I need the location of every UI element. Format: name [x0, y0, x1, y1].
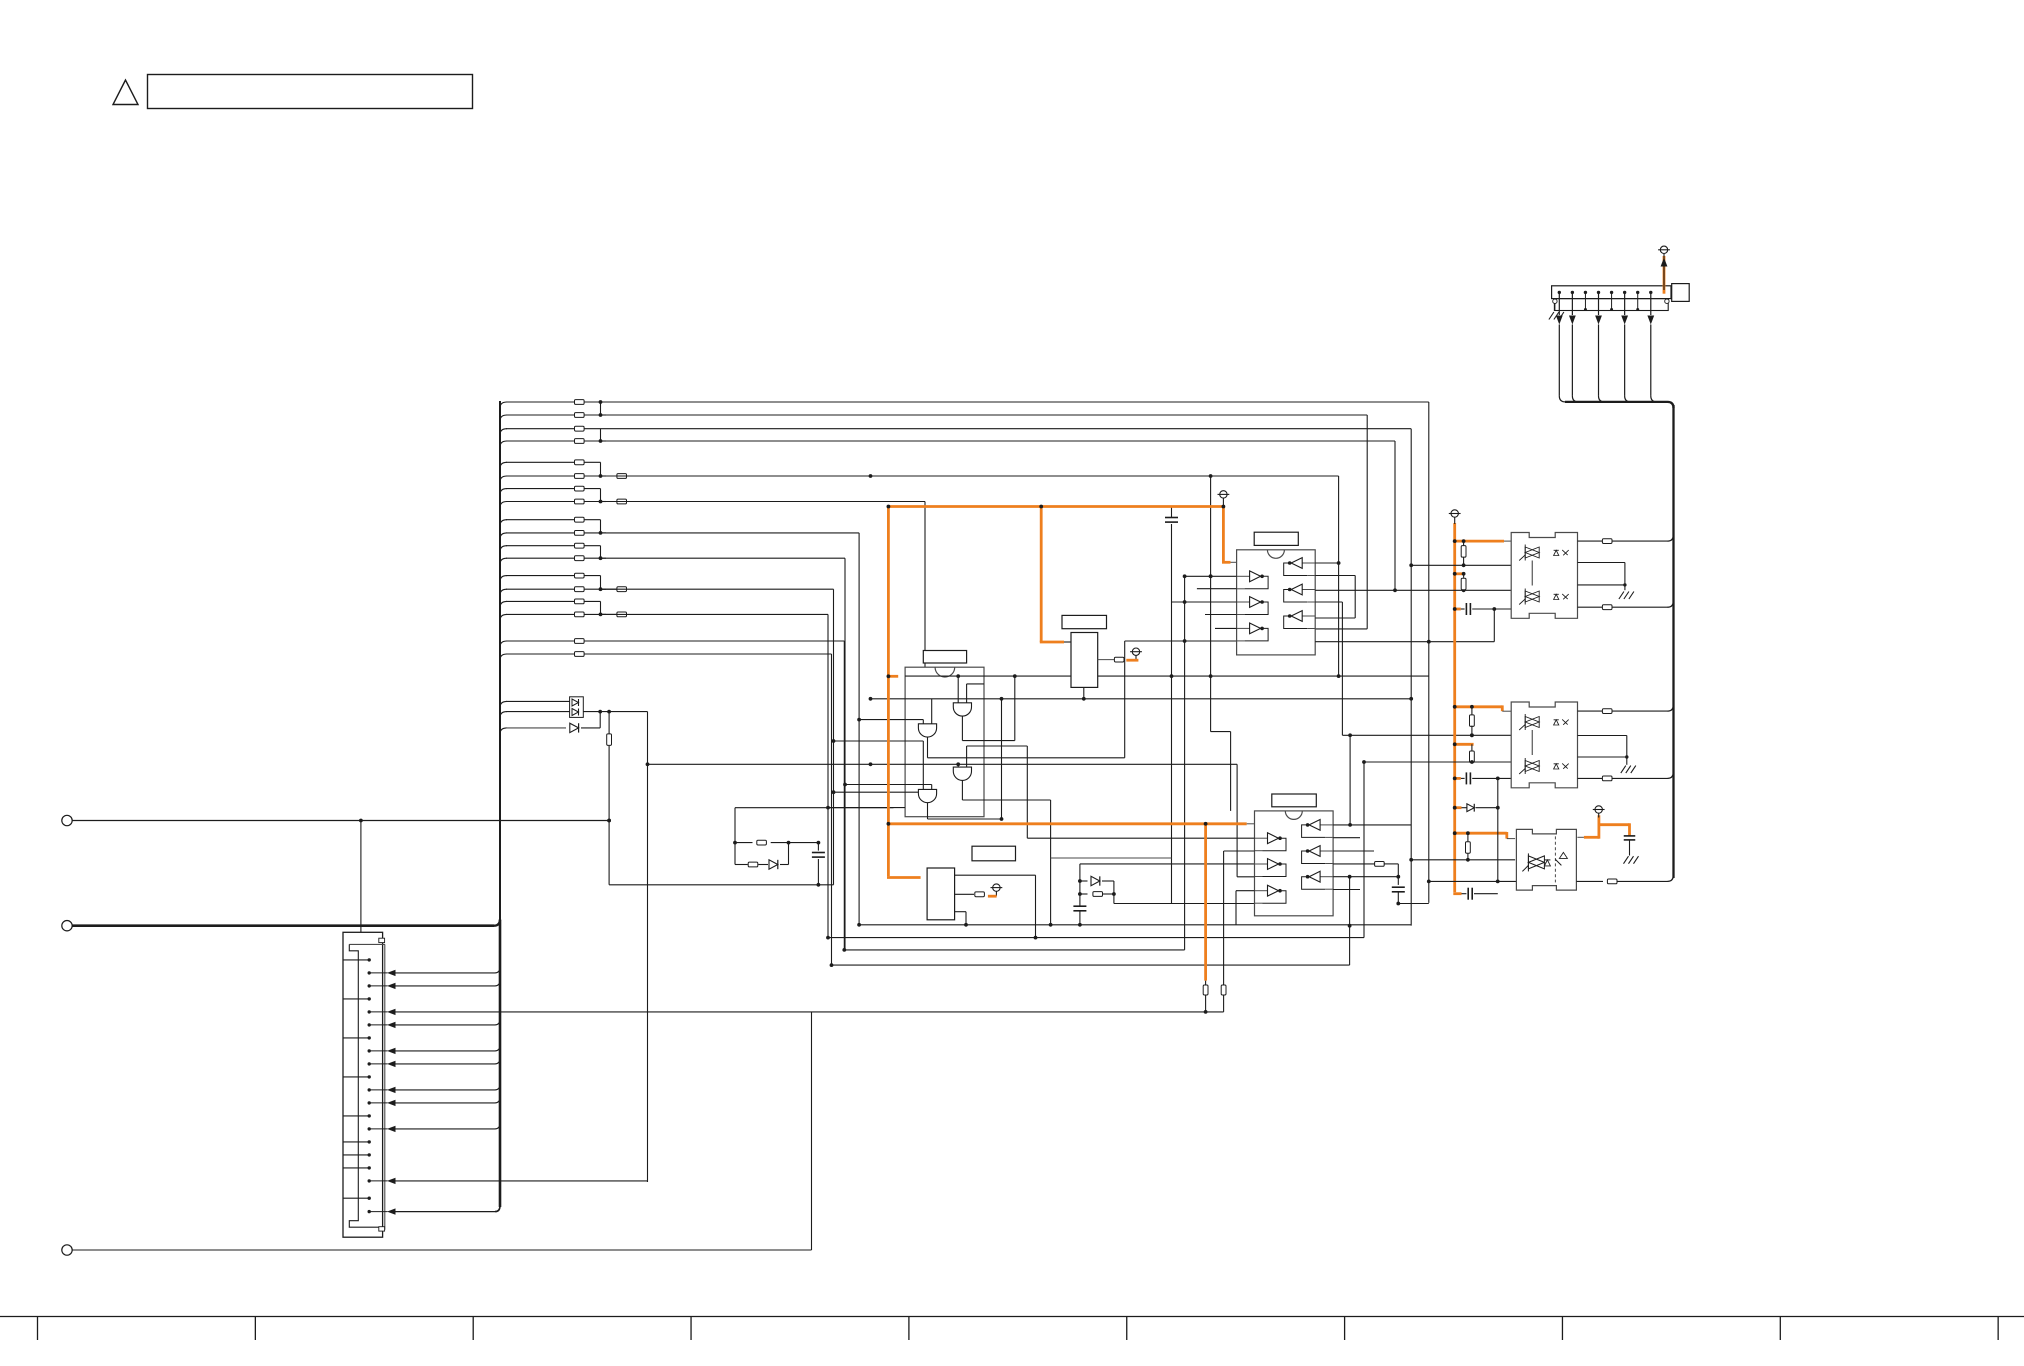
optocoupler PC1	[1511, 533, 1577, 619]
wire opto2 out A	[1578, 704, 1674, 713]
wire U2 pin top orange-fed	[905, 674, 1429, 678]
gate G2	[918, 724, 936, 737]
resistor R3 opto2	[1470, 707, 1475, 737]
wire U6 out876	[1237, 876, 1254, 878]
connector CN-top gnd hook	[1549, 299, 1564, 320]
wire H924 lower	[857, 923, 1411, 927]
wire opto2 pin link A	[1502, 710, 1511, 712]
wire V1494 up	[1493, 609, 1495, 642]
wire bus tap to D1 b	[500, 712, 570, 718]
wire V1124 up	[1124, 641, 1126, 758]
wire U4 top right	[955, 875, 1036, 937]
resistor R-609	[607, 712, 612, 885]
wire CN-top arrow up	[1661, 254, 1668, 290]
wire opto1 gnd	[1578, 563, 1627, 591]
wire row654 to V831	[584, 654, 833, 967]
wire row402 long	[601, 402, 1429, 903]
wire U5 r628	[1315, 628, 1367, 630]
wire G4 in b	[832, 790, 919, 794]
IC U2 outline	[905, 667, 984, 817]
wire V1350	[1349, 735, 1351, 825]
ground hatch opto2	[1621, 766, 1636, 774]
resistor R2 opto1	[1461, 572, 1466, 590]
capacitor C-1629	[1624, 836, 1636, 856]
diode D-1097	[1080, 876, 1114, 885]
warning note box	[148, 75, 473, 109]
wire U5 r641	[1315, 640, 1494, 644]
wire V361 to connector	[359, 821, 363, 938]
diode D-774	[769, 843, 789, 870]
wire row428 to V1411	[601, 429, 1412, 926]
orange junction dots	[887, 505, 1226, 826]
wire G2G4 mid	[832, 739, 924, 789]
wire row641 to V844	[584, 641, 846, 952]
wire row589 to V833	[601, 589, 834, 885]
orange right supply bus	[1453, 523, 1507, 894]
warning triangle	[113, 80, 138, 105]
orange CN-top stub	[1663, 256, 1666, 294]
wire opto1 out A	[1578, 534, 1674, 543]
connector CN-top hook right	[1665, 299, 1669, 303]
orange opto3 out net	[1577, 815, 1629, 838]
IC U6 hex buffer	[1255, 794, 1334, 916]
wire V1171	[1171, 524, 1173, 904]
resistor R5 opto3	[1466, 833, 1471, 861]
optocoupler PC3	[1516, 829, 1576, 890]
orange net main	[887, 505, 1247, 980]
terminal gnd sym orange top	[1218, 491, 1230, 507]
wires CN-top to bus	[1556, 292, 1657, 402]
wire G1 inputs	[956, 674, 984, 703]
wire U5 in628	[1215, 627, 1237, 629]
wire left signal bus vertical	[499, 401, 501, 1207]
optocoupler PC2	[1511, 702, 1577, 788]
terminal circle T1	[62, 815, 72, 825]
gate G1	[953, 703, 971, 716]
resistor R-1205	[1203, 981, 1208, 1012]
terminal circle T2	[62, 921, 72, 931]
wire H731 stub	[1211, 732, 1231, 811]
wire T1 line	[72, 819, 611, 823]
resistor R-753	[748, 862, 768, 867]
wire H757 to opto2	[1362, 760, 1511, 764]
wire opto2 gnd	[1578, 736, 1629, 765]
wire H881 to opto3	[1427, 880, 1517, 884]
capacitor C opto1	[1461, 603, 1511, 615]
wire U3 left link	[1057, 641, 1071, 643]
connector CN left housing	[343, 932, 385, 1237]
capacitor C-1079	[1073, 906, 1086, 925]
terminal gnd sym right bus	[1449, 510, 1461, 524]
gate G4	[918, 789, 936, 802]
wire H903 right	[1398, 903, 1429, 905]
wire row415 to V1367	[601, 415, 1368, 629]
wire opto1 out B	[1578, 600, 1674, 609]
second pads on rows	[601, 474, 627, 617]
connector CN-top pins	[1558, 291, 1653, 294]
wire U4 out pad	[955, 893, 974, 895]
wire H864 top	[1078, 864, 1255, 906]
orange stub U4 out	[988, 895, 997, 898]
wire U5 in576	[1183, 574, 1237, 578]
wire opto3 pin link	[1507, 838, 1515, 840]
wire H884 to cap	[609, 883, 833, 887]
wire G1 out	[962, 676, 1014, 741]
resistor R-757	[757, 840, 834, 845]
wire G2 out	[928, 737, 1125, 758]
wire thick bus right	[1672, 405, 1674, 878]
wire row476 to V1338	[601, 474, 1339, 676]
wire U6 r864 pad	[1333, 862, 1400, 885]
wire V1349 under	[1348, 875, 1352, 965]
wire U3 bottom	[1083, 687, 1085, 698]
wire U6 r876	[1333, 876, 1398, 878]
wire V1364	[1363, 762, 1365, 938]
gate G3	[953, 767, 971, 780]
capacitor C-1398	[1392, 887, 1405, 905]
resistor R1 opto1	[1461, 541, 1466, 565]
wire G3 in a	[648, 762, 1238, 876]
wire U5 r602	[1315, 602, 1342, 735]
wire U6 r824	[1333, 823, 1411, 827]
terminal gnd sym CN-top	[1658, 246, 1670, 253]
wire D2 up	[581, 712, 600, 728]
pad U3 out	[1114, 657, 1124, 662]
wire jogs pairing bundle rows	[599, 402, 606, 616]
wire U6 r889	[1333, 889, 1360, 891]
wire U5 out588	[1197, 588, 1237, 590]
wire net r1 row	[733, 841, 752, 845]
connector pads on bundle rows	[575, 400, 585, 657]
wire D1 out	[583, 710, 647, 714]
wire row441 to V1395	[601, 441, 1396, 590]
wire T3 line	[72, 1012, 811, 1250]
pad U4 out	[975, 892, 985, 897]
wire U5 in602	[1172, 600, 1237, 604]
capacitor C opto2	[1461, 772, 1511, 784]
wire U4 bottom right	[955, 912, 966, 925]
wire opto1 pin link A	[1504, 540, 1511, 542]
wire H858 to opto3	[1409, 858, 1515, 862]
wire V1001	[1000, 697, 1004, 821]
wire U5 orange pin link	[1231, 561, 1237, 563]
connector CN-top housing	[1552, 284, 1690, 311]
orange stub U3 out	[1126, 659, 1138, 662]
pad R-1097	[1080, 892, 1114, 897]
wire U2pin641 left	[1125, 639, 1237, 643]
capacitor C-1171	[1165, 507, 1178, 523]
wire U5 r589	[1315, 588, 1397, 592]
connector CN pins	[343, 958, 371, 1213]
wire G4 in c	[826, 806, 905, 810]
wire H591 to opto1	[1395, 588, 1511, 592]
bottom ruler scale	[0, 1317, 2024, 1341]
wire G3 out	[962, 780, 1050, 924]
capacitor C opto3	[1462, 888, 1498, 900]
wire bus tap to D1 a	[500, 701, 570, 707]
wire H937 lower	[826, 936, 1364, 940]
wire row558 to V845	[601, 558, 846, 950]
wire net top	[735, 808, 894, 865]
diode D opto3	[1462, 778, 1500, 881]
wire H565 to opto1	[1409, 563, 1511, 700]
IC U4 body	[927, 868, 955, 920]
wire V1210 mid	[1209, 476, 1213, 732]
wire U6 in890	[1236, 891, 1255, 925]
wire V1113	[1112, 881, 1116, 904]
wire G3 in b	[967, 746, 1028, 838]
ground hatch C-1629	[1624, 856, 1639, 864]
wire bus tap diode row	[500, 728, 566, 734]
wire H858 mid	[1051, 857, 1172, 859]
IC U5 hex buffer	[1237, 532, 1316, 655]
wires bus to connector arrows	[369, 967, 500, 1132]
wire U5 r575	[1315, 576, 1355, 619]
wire V648 long	[646, 712, 650, 1182]
wire row532 to V859	[601, 533, 860, 925]
dual diode block D1	[570, 697, 584, 718]
capacitor C-819	[812, 843, 825, 885]
wire U6 orange pin link	[1247, 823, 1255, 825]
wire row501 to gates top	[601, 502, 926, 668]
wire U5 out614	[1205, 614, 1237, 616]
wire connector row17	[369, 712, 647, 1185]
wire H733 channel	[1342, 733, 1511, 737]
terminal circle T3	[62, 1245, 72, 1255]
wire row614 to V828	[601, 614, 829, 937]
wire U5 r563	[1315, 561, 1340, 565]
wire G2 in a	[869, 697, 1412, 724]
wire G2 in b	[857, 718, 923, 724]
wire opto3 out	[1576, 874, 1673, 883]
wire G4 in a	[843, 783, 932, 790]
junction dot row402	[599, 400, 603, 404]
orange right bus dots	[1453, 539, 1474, 835]
terminal gnd sym U3	[1130, 648, 1142, 660]
wire U3 right out	[1098, 659, 1115, 661]
IC U4 label box	[972, 846, 1016, 861]
IC U2 label box	[923, 651, 966, 664]
wire connector row4 long	[369, 1009, 811, 1015]
connector CN-top stubs	[1584, 292, 1639, 311]
wire U6 r837	[1333, 837, 1360, 839]
diode D2	[570, 723, 579, 732]
wire H965 lower	[832, 964, 1350, 966]
wire net r2 row	[735, 864, 748, 866]
terminal gnd sym U4	[991, 884, 1003, 896]
resistor R4 opto2	[1470, 744, 1475, 764]
wire H1012	[812, 1010, 1224, 1014]
wire G4 out	[928, 803, 1002, 819]
IC U3 body	[1071, 633, 1098, 688]
resistor R-1223	[1221, 851, 1226, 1012]
wire U6 r851	[1333, 850, 1374, 852]
terminal gnd sym opto3	[1593, 806, 1605, 818]
ground hatch opto1	[1619, 592, 1634, 600]
wire H949 lower	[844, 949, 1184, 951]
wire H903 from net	[1114, 903, 1255, 905]
wire connector row19 bus end	[369, 1206, 500, 1215]
IC U3 label box	[1062, 615, 1107, 628]
wires bundle rows from bus	[500, 402, 601, 660]
wire U6 in838	[1027, 837, 1254, 839]
wire U6 out851	[1224, 850, 1255, 852]
wire T2 thick line	[72, 919, 500, 926]
wire thick top H	[1565, 402, 1674, 408]
wire opto2 out B	[1578, 771, 1674, 780]
wire V1184 mid	[1184, 576, 1186, 950]
